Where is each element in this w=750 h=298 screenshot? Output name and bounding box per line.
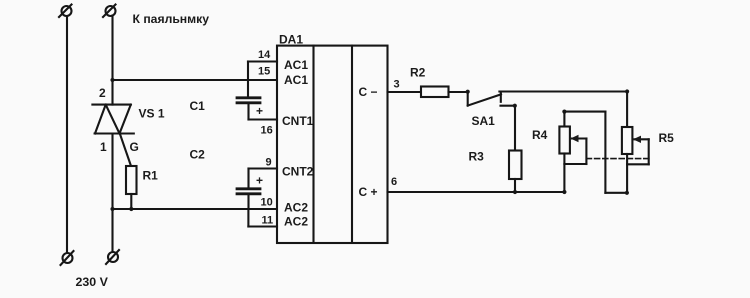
svg-text:R3: R3 xyxy=(469,150,485,164)
wire R1 to bottom rail xyxy=(130,194,132,209)
node junction R4 bottom / C+ rail xyxy=(562,190,566,194)
wire triac cathode down xyxy=(111,134,113,253)
capacitor C2 xyxy=(237,189,260,194)
capacitor C1 xyxy=(237,98,260,103)
wiper R5 xyxy=(627,136,649,165)
svg-text:G: G xyxy=(130,140,139,154)
svg-text:16: 16 xyxy=(261,125,273,137)
wire pin9 to cap xyxy=(247,169,249,189)
svg-text:3: 3 xyxy=(394,79,400,91)
wire switch lower throw to R3 xyxy=(514,106,516,151)
svg-text:6: 6 xyxy=(391,176,397,188)
pin 16 stub CNT1 xyxy=(249,118,278,120)
svg-text:14: 14 xyxy=(258,49,271,61)
potentiometer R4 xyxy=(563,112,565,127)
svg-text:CNT1: CNT1 xyxy=(282,114,314,128)
svg-text:AC1: AC1 xyxy=(284,73,308,87)
node junction R4 top xyxy=(562,110,566,114)
wire mechanical link dashed xyxy=(586,158,649,160)
svg-text:C +: C + xyxy=(359,185,378,199)
wire switch top throw to R5 xyxy=(499,90,627,92)
svg-text:C1: C1 xyxy=(190,99,206,113)
svg-text:R2: R2 xyxy=(410,66,426,80)
node junction triac / bottom rail xyxy=(110,207,114,211)
triac VS1 xyxy=(92,105,133,134)
pin 9 stub CNT2 xyxy=(249,167,278,169)
pin 3 wire C- xyxy=(388,91,422,93)
svg-text:R4: R4 xyxy=(532,128,548,142)
svg-text:9: 9 xyxy=(266,157,272,169)
pin 11 stub xyxy=(248,225,277,227)
svg-text:R5: R5 xyxy=(659,131,675,145)
svg-text:+: + xyxy=(256,104,263,118)
wiper R4 xyxy=(564,135,586,164)
wire pin15 AC1 xyxy=(113,79,278,81)
wire gate G xyxy=(120,134,131,167)
wire pin10 to pin11 xyxy=(247,209,249,227)
svg-text:1: 1 xyxy=(100,140,107,154)
terminal X4 bottom xyxy=(108,252,118,262)
svg-text:AC1: AC1 xyxy=(284,58,308,72)
svg-text:SA1: SA1 xyxy=(472,114,496,128)
resistor R2 xyxy=(421,87,449,98)
wire pin10 AC2 xyxy=(113,208,278,210)
svg-text:15: 15 xyxy=(258,66,270,78)
node junction R3 / C+ rail xyxy=(513,190,517,194)
potentiometer R5 xyxy=(622,127,633,154)
node junction at triac anode / pin15 wire xyxy=(110,78,114,82)
wire C1 to pin16 xyxy=(247,103,249,120)
resistor R3 xyxy=(509,151,522,180)
resistor R1 xyxy=(126,166,137,194)
wire R4 top link xyxy=(564,111,605,113)
switch SA1 xyxy=(466,90,517,108)
svg-text:2: 2 xyxy=(99,86,106,100)
svg-text:11: 11 xyxy=(262,215,274,227)
svg-text:CNT2: CNT2 xyxy=(282,165,314,179)
svg-text:R1: R1 xyxy=(143,169,159,183)
svg-text:+: + xyxy=(256,174,263,188)
svg-text:C −: C − xyxy=(359,85,378,99)
terminal X1 top-left xyxy=(62,6,72,16)
svg-text:AC2: AC2 xyxy=(284,201,308,215)
wire R5 top lead xyxy=(625,89,629,93)
svg-text:К паяльнмку: К паяльнмку xyxy=(133,12,210,26)
svg-text:C2: C2 xyxy=(190,148,206,162)
wire R2 to switch xyxy=(449,91,468,93)
svg-text:10: 10 xyxy=(261,197,273,209)
svg-text:230 V: 230 V xyxy=(76,275,109,289)
svg-text:DA1: DA1 xyxy=(279,33,303,47)
wire C2 to pin10 rail xyxy=(247,194,249,209)
terminal X2 top xyxy=(106,6,116,16)
pin 6 wire C+ rail xyxy=(388,191,565,193)
node junction R1 / bottom rail xyxy=(129,207,133,211)
node junction R5 bottom link xyxy=(625,191,629,195)
pin 14 stub xyxy=(248,60,277,62)
svg-text:AC2: AC2 xyxy=(284,215,308,229)
wire R3 to bottom rail xyxy=(514,179,516,192)
wire left vertical xyxy=(66,16,68,253)
IC DA1 body xyxy=(277,46,388,243)
svg-text:VS 1: VS 1 xyxy=(139,107,165,121)
wire pin14 to cap xyxy=(247,62,249,98)
wire from X2 down to triac xyxy=(111,16,113,105)
terminal X3 bottom-left xyxy=(63,253,73,263)
